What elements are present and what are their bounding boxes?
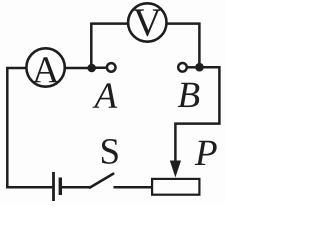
- terminal A (open circle): [107, 63, 116, 72]
- rheostat P body: [152, 179, 199, 195]
- battery BT1 long plate: [52, 172, 55, 201]
- wire: left loop from ammeter down to battery: [7, 68, 52, 187]
- switch S blade: [90, 174, 113, 188]
- wire: node B right, down right side to rheostat arrow: [175, 67, 219, 162]
- label S: [102, 139, 118, 164]
- wire: terminal B circle to node B dot: [188, 66, 199, 69]
- rheostat P wiper arrowhead: [170, 161, 181, 178]
- ammeter A1: [26, 48, 64, 86]
- terminal B (open circle): [178, 63, 187, 72]
- battery BT1 short plate: [59, 178, 62, 196]
- wire: node A dot to terminal A circle: [92, 67, 106, 70]
- node A junction dot: [87, 64, 96, 73]
- wire: switch to rheostat left terminal: [115, 186, 152, 189]
- label B: [178, 83, 199, 107]
- label A: [92, 83, 117, 107]
- wire: voltmeter left lead (down to node A): [91, 24, 128, 66]
- wire: battery to switch pivot: [62, 186, 90, 189]
- voltmeter V1: [128, 3, 166, 41]
- wire: ammeter to node A junction: [66, 67, 93, 70]
- label P: [195, 141, 217, 165]
- wire: voltmeter right lead (down to node B): [167, 24, 199, 66]
- node B junction dot: [195, 63, 204, 72]
